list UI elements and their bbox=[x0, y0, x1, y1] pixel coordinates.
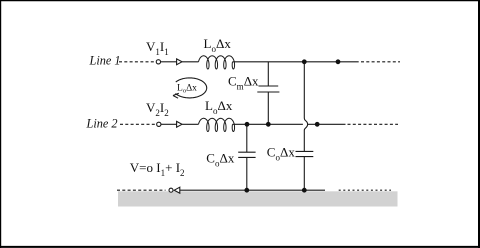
svg-text:Line 1: Line 1 bbox=[89, 54, 121, 68]
svg-text:LoΔx: LoΔx bbox=[177, 83, 197, 94]
svg-text:Line 2: Line 2 bbox=[86, 116, 118, 130]
